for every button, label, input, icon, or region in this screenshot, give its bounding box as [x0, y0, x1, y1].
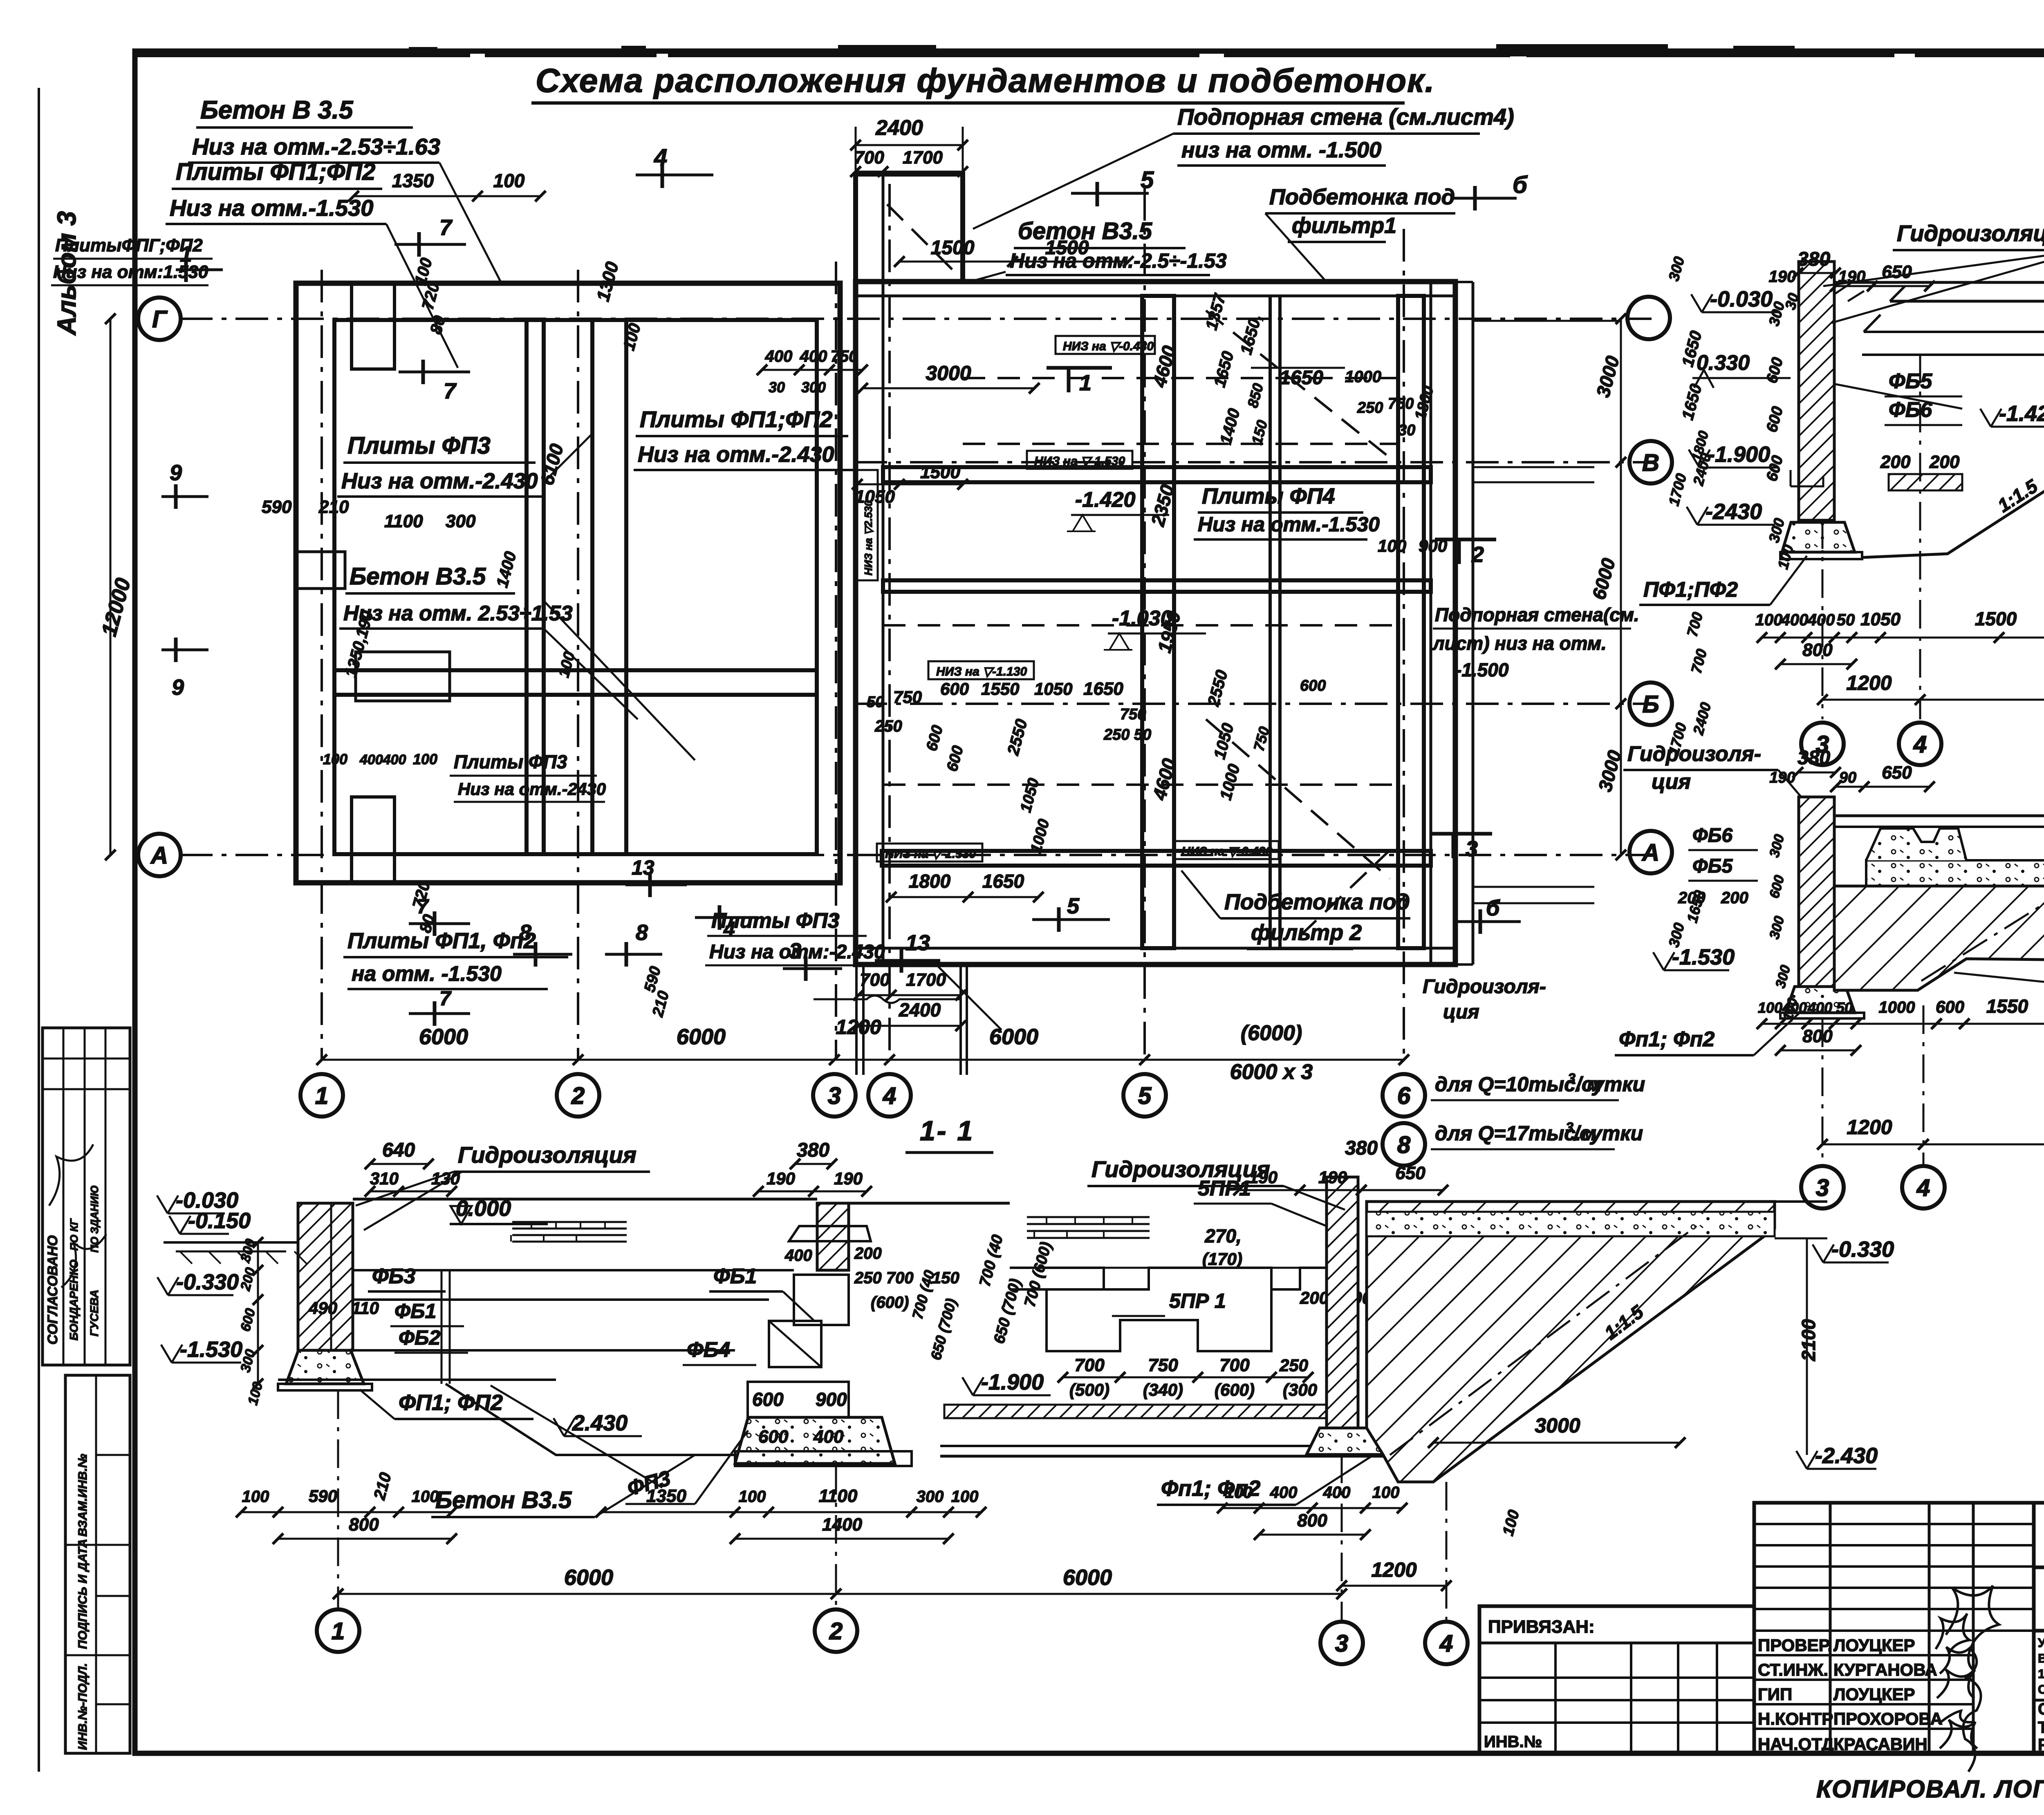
- svg-text:300: 300: [801, 379, 826, 396]
- sec3-3 top slab lines: [1834, 815, 2044, 817]
- svg-text:100: 100: [412, 1488, 439, 1506]
- svg-text:1- 1: 1- 1: [920, 1115, 974, 1146]
- right building bottom wall inner line: [856, 947, 1455, 950]
- plan bottom dim chain: [322, 1059, 1404, 1061]
- svg-text:13: 13: [905, 931, 930, 955]
- grid circle Г left: [138, 298, 181, 340]
- svg-text:50: 50: [1837, 611, 1855, 629]
- leader to beton top-left: [439, 163, 501, 282]
- svg-text:4: 4: [654, 144, 667, 171]
- svg-text:1: 1: [315, 1083, 328, 1109]
- svg-text:1800: 1800: [909, 871, 951, 892]
- svg-text:ФБ3: ФБ3: [372, 1264, 415, 1288]
- svg-text:ПРОВЕР.: ПРОВЕР.: [1758, 1636, 1832, 1655]
- plan column axis 2: [577, 270, 579, 1061]
- right building top wall inner line: [856, 295, 1455, 298]
- sec2-2 circle 3: [1801, 723, 1844, 765]
- grid circle А right: [1629, 831, 1672, 873]
- svg-text:100: 100: [1225, 1484, 1253, 1502]
- svg-text:1500: 1500: [1975, 608, 2017, 629]
- left building interior wall vertical 1: [527, 320, 544, 854]
- svg-text:-1.500: -1.500: [1455, 659, 1509, 680]
- svg-text:190: 190: [1769, 268, 1796, 286]
- svg-text:17ТЫС.М3В СУТКИ.САМОТЕЧНАЯ ПОД: 17ТЫС.М3В СУТКИ.САМОТЕЧНАЯ ПОДАЧА: [2038, 1667, 2044, 1681]
- svg-text:490: 490: [308, 1298, 337, 1318]
- plan section mark 5 top: [1096, 182, 1099, 206]
- title block TP number box: [2034, 1503, 2044, 1567]
- svg-text:1200: 1200: [1846, 671, 1892, 694]
- svg-text:(6000): (6000): [1241, 1021, 1302, 1045]
- svg-text:400: 400: [1323, 1484, 1351, 1502]
- svg-text:ПОДПИСЬ И ДАТА: ПОДПИСЬ И ДАТА: [76, 1539, 90, 1649]
- svg-text:200: 200: [1929, 452, 1960, 472]
- sec2-2 circle 4: [1899, 723, 1941, 765]
- svg-text:Г: Г: [152, 306, 168, 333]
- svg-text:НИЗ на ▽-1.530: НИЗ на ▽-1.530: [885, 847, 976, 861]
- svg-text:4: 4: [1916, 1175, 1930, 1201]
- svg-text:1: 1: [1079, 371, 1091, 395]
- svg-text:250 700: 250 700: [854, 1269, 914, 1287]
- plan right edge vertical 3603: [1472, 282, 1475, 965]
- svg-text:ТОВ И ПОДБЕТОНОК.: ТОВ И ПОДБЕТОНОК.: [2038, 1719, 2044, 1737]
- svg-text:400: 400: [800, 347, 827, 365]
- svg-text:6000: 6000: [1063, 1565, 1112, 1590]
- svg-text:50: 50: [867, 694, 884, 711]
- svg-text:В: В: [1642, 450, 1659, 476]
- plan bottom circle 2: [557, 1074, 599, 1117]
- sec1-1 right mass dashdot: [1390, 1226, 1697, 1455]
- sec2-2 excavation floor: [1862, 476, 2044, 557]
- svg-text:Низ на отм.-2.430: Низ на отм.-2.430: [341, 469, 538, 493]
- sec1-1 wall left column lines: [441, 1270, 443, 1384]
- svg-text:ФБ5: ФБ5: [1889, 369, 1932, 393]
- svg-text:590: 590: [262, 497, 292, 517]
- title block big signature scribble: [1946, 1586, 1999, 1772]
- svg-text:190: 190: [1769, 769, 1795, 786]
- svg-text:5: 5: [1138, 1083, 1152, 1109]
- svg-text:-1.530: -1.530: [180, 1337, 242, 1362]
- plan retaining wall below lines: [855, 965, 858, 1075]
- svg-text:6000: 6000: [564, 1565, 613, 1590]
- svg-text:250: 250: [874, 717, 902, 735]
- sec2-2 left wall pad: [1782, 522, 1855, 552]
- svg-text:30: 30: [1398, 422, 1415, 439]
- svg-text:600: 600: [758, 1427, 789, 1447]
- svg-text:1050: 1050: [855, 487, 895, 507]
- svg-text:750: 750: [1148, 1355, 1178, 1375]
- svg-text:7: 7: [439, 987, 452, 1010]
- sec1-1 bricks right: [1027, 1217, 1150, 1238]
- leader podpornaya top: [973, 134, 1173, 229]
- svg-text:600: 600: [1300, 677, 1326, 694]
- sec1-1 right mass hatched: [1367, 1202, 1775, 1482]
- right building interior wall vertical mid: [1142, 296, 1174, 948]
- svg-text:ИНВ.№-ПОДЛ.: ИНВ.№-ПОДЛ.: [76, 1663, 90, 1750]
- svg-text:-2.430: -2.430: [1815, 1443, 1878, 1468]
- sec1-1 bottom dims left: [241, 1511, 452, 1513]
- svg-text:Бетон В3.5: Бетон В3.5: [350, 563, 486, 590]
- plan bottom circle 4: [868, 1074, 911, 1117]
- svg-text:3000: 3000: [1535, 1414, 1580, 1437]
- svg-text:1400: 1400: [822, 1515, 862, 1535]
- svg-text:/сутки: /сутки: [1573, 1122, 1643, 1145]
- svg-text:1700: 1700: [906, 970, 946, 990]
- plan wavy break line: [814, 996, 961, 1003]
- svg-text:РАЗРЕЗЫ 1-1 ÷ 3-3.: РАЗРЕЗЫ 1-1 ÷ 3-3.: [2038, 1736, 2044, 1754]
- svg-text:3000: 3000: [926, 362, 971, 385]
- sec1-1 circle 4: [1425, 1622, 1468, 1664]
- svg-text:2.430: 2.430: [572, 1411, 628, 1435]
- svg-text:1000: 1000: [1879, 998, 1915, 1016]
- svg-text:фильтр 2: фильтр 2: [1251, 920, 1362, 945]
- svg-text:100: 100: [1755, 611, 1783, 629]
- svg-text:(600): (600): [871, 1294, 909, 1311]
- svg-text:800: 800: [1297, 1511, 1327, 1531]
- svg-text:ФБ4: ФБ4: [687, 1338, 730, 1362]
- svg-text:2: 2: [571, 1083, 585, 1109]
- svg-text:190: 190: [1838, 268, 1866, 286]
- plan section mark 13b: [648, 873, 652, 897]
- sec1-1 left wall hatched: [298, 1203, 353, 1350]
- svg-text:4: 4: [883, 1083, 896, 1109]
- sec3-3 bottom dims: [1762, 1023, 2044, 1025]
- sec1-1 bricks left: [512, 1222, 627, 1242]
- svg-text:600: 600: [1936, 997, 1964, 1016]
- sec1-1 circle 1: [317, 1609, 359, 1652]
- svg-text:ция: ция: [1443, 1001, 1479, 1023]
- svg-text:НИЗ на ▽-0.430: НИЗ на ▽-0.430: [1063, 340, 1154, 353]
- svg-text:Плиты ФП1, Фп2: Плиты ФП1, Фп2: [347, 929, 536, 953]
- svg-text:низ на отм. -1.500: низ на отм. -1.500: [1181, 138, 1381, 162]
- svg-text:Б: Б: [1642, 691, 1659, 718]
- svg-text:3: 3: [1335, 1630, 1348, 1657]
- svg-text:250: 250: [1279, 1356, 1308, 1375]
- svg-text:ВОД НА ФИЛЬТРАХ ПРОИЗВОДИТЕЛЬН: ВОД НА ФИЛЬТРАХ ПРОИЗВОДИТЕЛЬНОСТЬЮ: [2038, 1651, 2044, 1665]
- left building interior wall horizontal: [334, 670, 817, 695]
- svg-text:Бетон В 3.5: Бетон В 3.5: [200, 96, 354, 124]
- svg-text:7: 7: [444, 379, 457, 403]
- plan diagonal leader lower: [936, 965, 1002, 1030]
- sec1-1 axis2 block FB1b: [748, 1382, 849, 1417]
- sec3-3 axis dim line: [1822, 1144, 2044, 1146]
- plan section mark 8b: [625, 942, 628, 967]
- svg-text:250 50: 250 50: [1103, 726, 1151, 743]
- sec2-2 left lower bracket: [1791, 470, 1823, 486]
- svg-text:лист) низ на отм.: лист) низ на отм.: [1432, 633, 1607, 654]
- plan boxed level -1.530b: [877, 844, 982, 862]
- svg-text:-0.330: -0.330: [176, 1270, 239, 1294]
- svg-text:Низ на отм.-2430: Низ на отм.-2430: [458, 779, 606, 799]
- svg-text:700: 700: [1219, 1355, 1250, 1375]
- svg-text:на отм. -1.530: на отм. -1.530: [352, 962, 502, 986]
- plan grid axis Г: [180, 318, 1652, 320]
- svg-text:250: 250: [1357, 399, 1383, 416]
- leader plity FP3: [544, 433, 593, 482]
- svg-text:ФБ5: ФБ5: [1692, 855, 1733, 877]
- svg-text:900: 900: [1419, 536, 1447, 555]
- svg-text:Подбетонка под: Подбетонка под: [1269, 185, 1455, 209]
- sec1-1 top lines right of mass: [1775, 1200, 1827, 1203]
- svg-text:100: 100: [493, 170, 525, 191]
- plan bottom circle 6: [1383, 1074, 1425, 1117]
- svg-text:НИЗ на ▽-1.130: НИЗ на ▽-1.130: [936, 665, 1027, 678]
- svg-text:Подпорная стена (см.лист4): Подпорная стена (см.лист4): [1177, 104, 1514, 130]
- svg-text:1: 1: [332, 1618, 345, 1645]
- svg-text:700: 700: [860, 970, 890, 990]
- sec2-2 left wall base: [1780, 552, 1862, 559]
- svg-text:Низ на отм. 2.53÷1.53: Низ на отм. 2.53÷1.53: [343, 602, 573, 625]
- right building interior wall horizontal 1: [883, 467, 1431, 482]
- left building bottom wall stub: [352, 797, 394, 883]
- svg-text:8: 8: [636, 920, 648, 945]
- paper edge left: [38, 88, 40, 1772]
- svg-text:300: 300: [446, 511, 476, 531]
- svg-text:800: 800: [1802, 1026, 1833, 1046]
- svg-text:-1.420: -1.420: [1075, 488, 1136, 512]
- plan section mark 6b: [1479, 909, 1482, 934]
- plan section mark 5b: [1057, 907, 1061, 932]
- plan column axis 5: [1143, 188, 1146, 1061]
- plan bottom circle 3: [813, 1074, 856, 1117]
- svg-text:(170): (170): [1202, 1249, 1242, 1269]
- sec1-1 5PR1 channels: [1047, 1289, 1271, 1351]
- svg-text:600: 600: [940, 679, 969, 698]
- grid circle А left: [138, 834, 181, 876]
- sec3-3 big hatched mass: [1834, 886, 2044, 998]
- svg-text:640: 640: [382, 1139, 415, 1161]
- svg-text:1050: 1050: [1860, 609, 1901, 629]
- plan grid axis В right: [854, 461, 1652, 463]
- svg-text:-1.530: -1.530: [1672, 945, 1735, 969]
- svg-text:90: 90: [1839, 769, 1856, 786]
- svg-text:ПФ1;ПФ2: ПФ1;ПФ2: [1643, 578, 1738, 602]
- svg-text:3: 3: [828, 1083, 841, 1109]
- sec3-3 left base: [1780, 1013, 1864, 1018]
- sec1-1 axis3 wall hatched: [1327, 1177, 1358, 1428]
- svg-text:ГИП: ГИП: [1758, 1685, 1792, 1704]
- svg-text:(600): (600): [1215, 1380, 1255, 1399]
- plan boxed level 2.530 rotated: [857, 470, 878, 580]
- svg-text:700: 700: [854, 148, 884, 168]
- svg-text:300: 300: [917, 1488, 944, 1506]
- svg-text:3: 3: [1568, 1071, 1576, 1086]
- plan column axis 6: [1403, 229, 1405, 1061]
- svg-text:1000: 1000: [1345, 368, 1381, 386]
- sec3-3 circle 4: [1902, 1166, 1945, 1209]
- plan column axis 1: [320, 270, 323, 1061]
- plan section mark 8a: [534, 942, 538, 967]
- svg-text:КОПИРОВАЛ. ЛОГИНОВА: КОПИРОВАЛ. ЛОГИНОВА: [1816, 1775, 2044, 1803]
- svg-text:Плиты ФП1;ФП2: Плиты ФП1;ФП2: [176, 159, 375, 185]
- svg-text:400: 400: [1807, 611, 1835, 629]
- svg-text:190: 190: [1249, 1168, 1277, 1187]
- svg-text:Низ на отм.-2.430: Низ на отм.-2.430: [638, 442, 834, 467]
- title block signatures: [1936, 1614, 1970, 1653]
- svg-text:800: 800: [1802, 640, 1833, 660]
- svg-text:650: 650: [1882, 262, 1912, 282]
- left stamp column lower block: [65, 1375, 130, 1753]
- plan bottom circle 1: [300, 1074, 343, 1117]
- right building right wall band: [1430, 282, 1432, 965]
- svg-text:1050: 1050: [1034, 679, 1072, 698]
- plan section mark 7b: [421, 360, 425, 384]
- svg-text:200: 200: [1880, 452, 1911, 472]
- svg-text:ИНВ.№: ИНВ.№: [1484, 1733, 1542, 1751]
- leader podbetonka1: [1265, 213, 1327, 282]
- svg-text:400: 400: [1782, 999, 1807, 1016]
- protrusion dashed diagonal: [887, 204, 959, 276]
- sec1-1 axis2 cap: [789, 1226, 871, 1241]
- svg-text:100: 100: [1758, 999, 1782, 1016]
- svg-text:2400: 2400: [899, 999, 941, 1021]
- svg-text:б: б: [1486, 896, 1500, 920]
- sec1-1 mid floor step: [446, 1384, 735, 1455]
- sec3-3 mass dashdot diagonals: [1921, 891, 2044, 981]
- svg-text:190: 190: [834, 1169, 863, 1188]
- plan boxed level -0.430: [1056, 336, 1155, 354]
- svg-text:НИЗ на ▽-0.430: НИЗ на ▽-0.430: [1181, 845, 1272, 858]
- svg-text:Плиты ФП1;ФП2: Плиты ФП1;ФП2: [640, 406, 832, 432]
- frame top thick border: [135, 50, 2044, 57]
- svg-text:650: 650: [1395, 1163, 1425, 1183]
- svg-text:Низ на отм.-1.530: Низ на отм.-1.530: [170, 195, 373, 221]
- plan section mark 6 top: [1473, 186, 1477, 210]
- svg-text:Низ на отм.-1.530: Низ на отм.-1.530: [1198, 513, 1380, 536]
- plan dim 1500 1500: [899, 261, 1128, 263]
- svg-text:ВЗАМ.ИНВ.№: ВЗАМ.ИНВ.№: [76, 1454, 90, 1537]
- right building interior wall vertical right: [1398, 296, 1424, 948]
- right building interior wall horizontal mid2: [883, 580, 1431, 592]
- plan right vertical dim chain: [1620, 319, 1622, 855]
- sec1-1 center basin walls: [849, 1202, 1010, 1205]
- privyazan table: [1479, 1606, 1754, 1753]
- svg-text:-1.900: -1.900: [981, 1370, 1044, 1394]
- svg-text:ФБ1: ФБ1: [394, 1300, 436, 1323]
- plan section mark T1: [1067, 368, 1071, 392]
- svg-text:5ПР 1: 5ПР 1: [1169, 1289, 1226, 1312]
- frame bottom border: [135, 1751, 2044, 1756]
- svg-text:1200: 1200: [1371, 1558, 1416, 1581]
- svg-text:А: А: [1641, 839, 1659, 866]
- svg-text:1500: 1500: [1045, 237, 1089, 259]
- plan dim 400 400 750 3000: [762, 369, 863, 371]
- plan section mark 9b left: [174, 638, 178, 662]
- leader beton mid: [544, 629, 638, 719]
- svg-text:КУРГАНОВА: КУРГАНОВА: [1833, 1660, 1937, 1679]
- plan dim 2400 top: [856, 144, 963, 146]
- leader beton right: [969, 272, 1006, 282]
- sec1-1 circle 3: [1320, 1622, 1363, 1664]
- grid circle Б right: [1629, 683, 1672, 725]
- plan dim 1350 100 top: [354, 195, 540, 197]
- svg-text:900: 900: [816, 1389, 847, 1410]
- sec1-1 slope dim 3000: [1433, 1442, 1680, 1444]
- sec1-1 axis3 pad: [1307, 1428, 1383, 1455]
- svg-text:Схема расположения фундамент: Схема расположения фундаментов и подбето…: [536, 62, 1435, 99]
- sec1-1 bottom dims mid: [601, 1511, 981, 1513]
- svg-text:-2430: -2430: [1706, 499, 1762, 524]
- svg-text:(300: (300: [1283, 1380, 1317, 1399]
- svg-text:НИЗ на ▽2.530: НИЗ на ▽2.530: [862, 500, 874, 575]
- svg-text:Н.КОНТР: Н.КОНТР: [1758, 1709, 1833, 1728]
- grid circle Г right: [1627, 297, 1670, 339]
- plan dashed line lower1: [883, 624, 1398, 627]
- sec1-1 bottom dims right: [1222, 1507, 1402, 1509]
- plan section mark 1 left: [184, 257, 188, 282]
- svg-text:200: 200: [1721, 889, 1748, 907]
- svg-text:6000: 6000: [989, 1025, 1038, 1049]
- sec1-1 axis dim line: [338, 1593, 1342, 1595]
- plan grid axis А: [180, 854, 1652, 856]
- right building left wall inner line: [882, 282, 885, 965]
- svg-text:100: 100: [242, 1488, 269, 1506]
- plan dashed line mid: [963, 443, 1398, 445]
- left building pad left: [296, 552, 345, 589]
- svg-text:190: 190: [1318, 1168, 1347, 1187]
- svg-text:НИЗ на ▽-1.530: НИЗ на ▽-1.530: [1034, 454, 1125, 468]
- sec1-1 right mass speckle strip: [1367, 1212, 1775, 1236]
- plan section mark T2: [1457, 539, 1461, 564]
- svg-text:3: 3: [1816, 1175, 1829, 1201]
- sec2-2 wall small cap: [1834, 282, 1864, 301]
- plan tank diagonal lower2: [1300, 850, 1390, 936]
- svg-text:1550: 1550: [1986, 996, 2028, 1017]
- plan dim 1800 1650 bottom: [891, 896, 1038, 898]
- svg-text:9: 9: [170, 461, 182, 485]
- plan section mark 7d: [433, 1001, 437, 1026]
- frame top scan blobs: [621, 46, 646, 56]
- left building pad top: [356, 652, 450, 701]
- svg-text:ФБ6: ФБ6: [1692, 825, 1732, 846]
- svg-text:5: 5: [1067, 894, 1080, 918]
- svg-text:400: 400: [784, 1247, 812, 1264]
- left building interior wall vertical 2: [592, 320, 626, 854]
- svg-text:190: 190: [766, 1169, 795, 1188]
- svg-text:фильтр1: фильтр1: [1292, 213, 1396, 238]
- svg-text:ГУСЕВА: ГУСЕВА: [88, 1290, 101, 1336]
- sec1-1 5PR1 slab top: [1010, 1268, 1327, 1289]
- svg-text:2: 2: [829, 1618, 843, 1645]
- plan boxed level -1.130: [928, 661, 1034, 679]
- svg-text:110: 110: [352, 1298, 379, 1318]
- title block row under TP: [2034, 1566, 2044, 1569]
- plan section mark 3: [804, 956, 808, 981]
- svg-text:8: 8: [519, 920, 531, 945]
- plan bottom circle 5: [1123, 1074, 1166, 1117]
- svg-text:1100: 1100: [819, 1486, 858, 1506]
- plan column axis 4: [888, 184, 891, 1061]
- svg-text:380: 380: [797, 1139, 829, 1161]
- sec1-1 axis2 pad: [735, 1417, 895, 1464]
- plan grid axis Б right: [854, 703, 1652, 705]
- svg-text:400: 400: [1270, 1484, 1298, 1502]
- sec3-3 left wall pad: [1786, 987, 1855, 1013]
- plan section mark 4b: [718, 905, 722, 930]
- svg-text:(500): (500): [1069, 1380, 1109, 1399]
- plan dashed line lower2: [883, 783, 1398, 786]
- plan section mark 7c: [433, 911, 437, 936]
- svg-text:ПО КГ: ПО КГ: [68, 1218, 80, 1251]
- sec1-1 left base: [278, 1384, 372, 1390]
- sec1-1 ground line left: [164, 1241, 298, 1244]
- left stamp column upper block: [43, 1028, 130, 1365]
- plan dim 12000 left: [110, 319, 112, 855]
- plan section mark 9 left: [174, 484, 178, 509]
- left building inner wall line: [334, 320, 817, 854]
- svg-text:ПРОХОРОВА: ПРОХОРОВА: [1833, 1709, 1943, 1728]
- svg-text:(340): (340): [1143, 1380, 1183, 1399]
- svg-text:-0.150: -0.150: [188, 1209, 251, 1233]
